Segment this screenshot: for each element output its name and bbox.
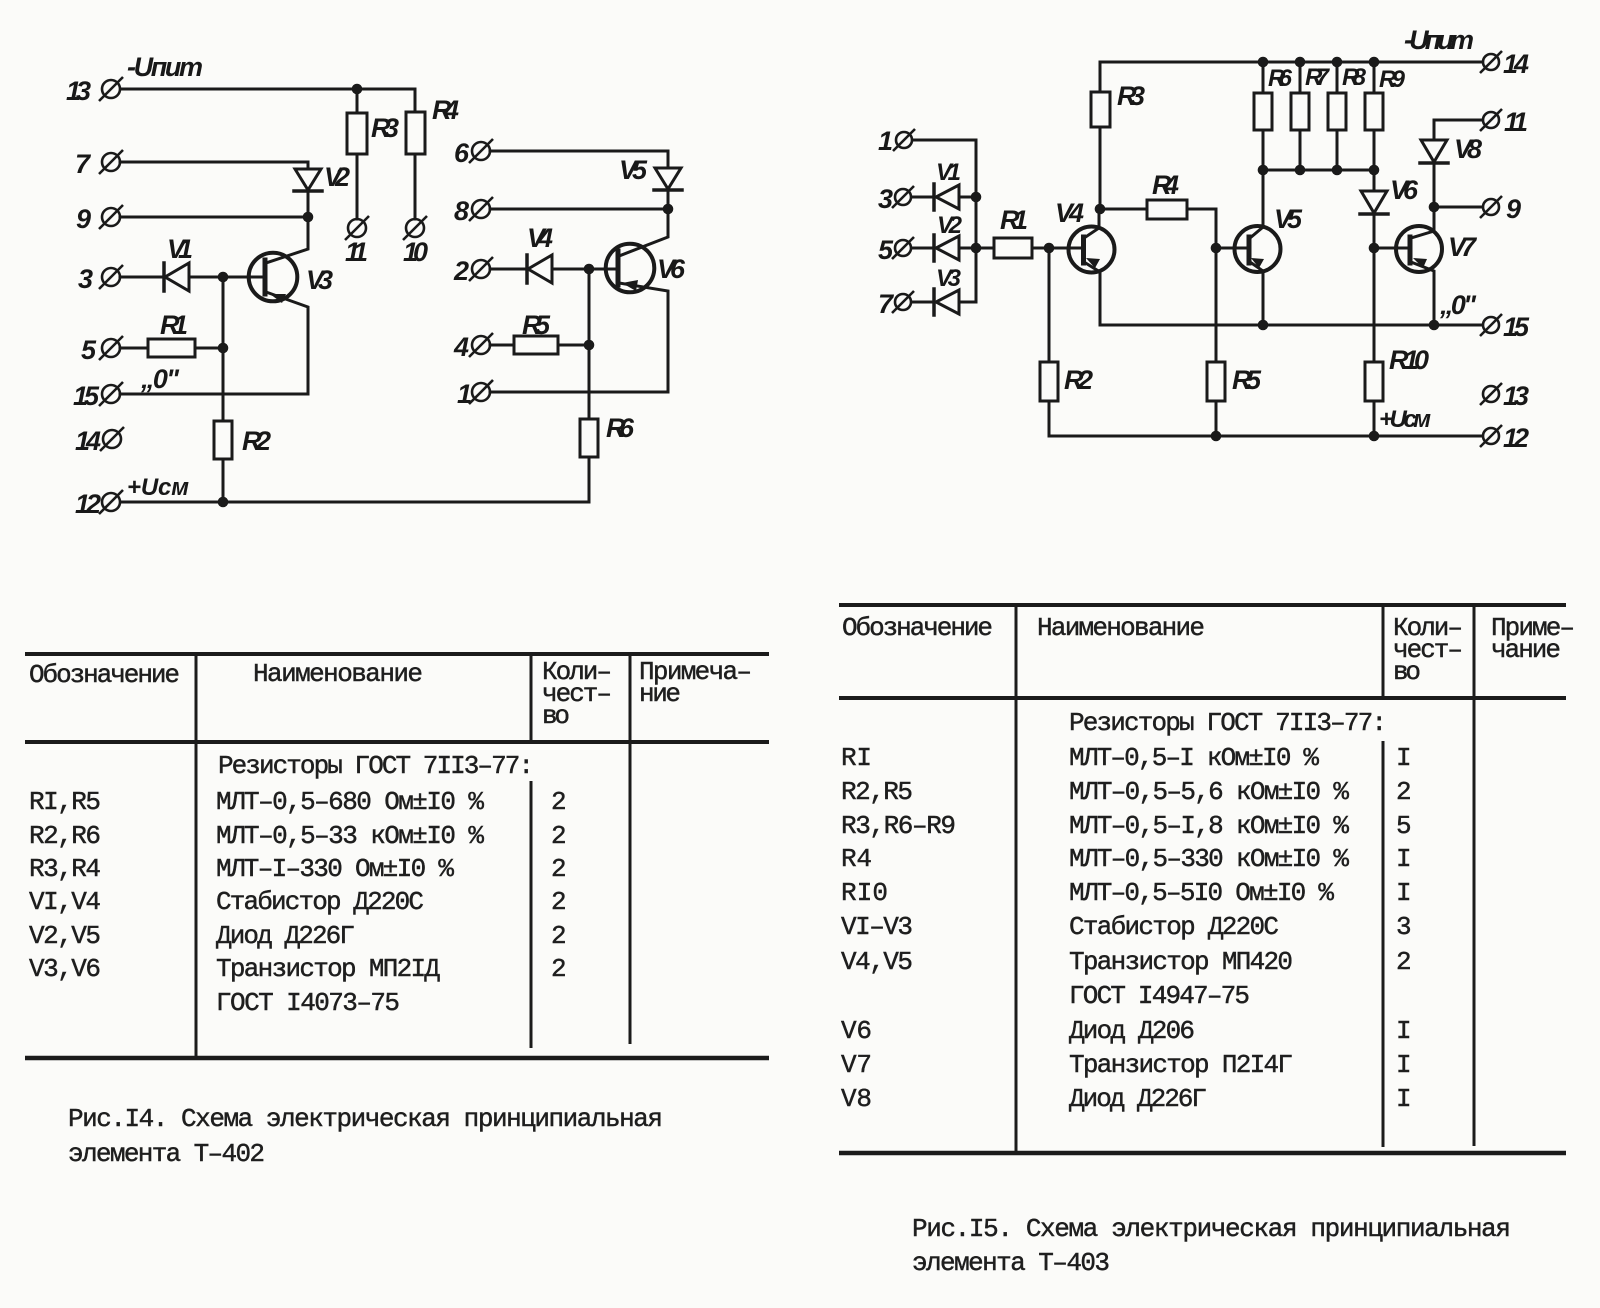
svg-text:2: 2: [551, 887, 567, 917]
junction R5 on +Uсм rail: [1211, 431, 1222, 442]
V6 emitter arrow (PNP): [622, 280, 638, 291]
wire base node down to R2: [222, 277, 225, 421]
pin 15 terminal: [1480, 314, 1502, 336]
wire R5 to base column: [558, 344, 589, 347]
svg-text:Транзистор МП420: Транзистор МП420: [1069, 947, 1293, 977]
svg-text:Стабистор Д220С: Стабистор Д220С: [216, 887, 424, 917]
pin 3 terminal: [892, 186, 914, 208]
wire R1 to V4 base: [1032, 247, 1083, 250]
junction bottom rail R8: [1332, 165, 1343, 176]
svg-text:во: во: [1393, 657, 1421, 687]
junction V4 collector/R3/R4: [1095, 204, 1106, 215]
svg-text:Наименование: Наименование: [253, 659, 423, 689]
pin 3 terminal: [99, 265, 123, 289]
wire R2 bottom to +Uсм rail: [222, 459, 225, 502]
resistor R2: [1040, 362, 1058, 401]
wire R5 column: [1215, 248, 1218, 362]
svg-text:14: 14: [75, 426, 101, 456]
pin 14 terminal: [1480, 51, 1502, 73]
wire V6 emitter down to pin 1 line: [619, 283, 668, 392]
junction top rail R8: [1332, 57, 1343, 68]
resistor R1: [148, 339, 195, 357]
wire R4 bottom to pin 10: [414, 154, 417, 219]
wire R1 to base column: [195, 347, 223, 350]
resistor R4: [406, 112, 425, 154]
wire base node to V5: [1216, 247, 1248, 250]
svg-text:14: 14: [1503, 49, 1529, 79]
diode V8: [1421, 140, 1447, 162]
svg-text:I: I: [1396, 844, 1412, 874]
svg-text:2: 2: [1396, 777, 1412, 807]
wire pin 5 to R1: [120, 347, 148, 350]
junction top rail R9: [1369, 57, 1380, 68]
junction R10 on +Uсм rail: [1369, 431, 1380, 442]
transistor V5: [1235, 226, 1281, 272]
svg-text:Стабистор Д220С: Стабистор Д220С: [1069, 912, 1279, 942]
pin 13 terminal: [99, 77, 123, 101]
svg-text:R1: R1: [160, 310, 188, 340]
svg-text:МЛТ–0,5–33 кОм±I0 %: МЛТ–0,5–33 кОм±I0 %: [216, 821, 484, 851]
svg-text:МЛТ–I–330 Ом±I0 %: МЛТ–I–330 Ом±I0 %: [216, 854, 454, 884]
svg-text:Рис.I5. Схема электрическая пр: Рис.I5. Схема электрическая принципиальн…: [912, 1214, 1511, 1244]
wire R4 top stub: [414, 89, 417, 112]
svg-text:2: 2: [551, 787, 567, 817]
svg-text:8: 8: [454, 196, 469, 226]
svg-text:VI,V4: VI,V4: [29, 887, 101, 917]
wire V2 to input column: [959, 247, 976, 250]
svg-text:V5: V5: [1274, 204, 1303, 234]
svg-text:V8: V8: [841, 1084, 872, 1114]
wire pin 8 to node: [490, 208, 668, 211]
wire pin 5 to V2: [912, 247, 933, 250]
wire R3 top stub: [356, 89, 359, 113]
resistor R4: [1147, 200, 1187, 219]
wire R7 bottom stub: [1299, 130, 1302, 170]
svg-text:1: 1: [878, 126, 893, 156]
resistor R5: [1207, 362, 1225, 401]
svg-text:15: 15: [73, 381, 100, 411]
svg-text:6: 6: [454, 138, 470, 168]
junction V8/V7 collector/pin 9: [1429, 202, 1440, 213]
svg-text:I: I: [1396, 1050, 1412, 1080]
wire pin 1 input: [913, 140, 976, 302]
svg-text:во: во: [542, 701, 570, 731]
wire pin 4 to R5: [490, 344, 514, 347]
wire R7 top stub: [1299, 62, 1302, 93]
wire base node to V7: [1374, 247, 1410, 250]
svg-text:R4: R4: [432, 95, 459, 125]
wire V5 cathode to node 8: [667, 190, 670, 209]
svg-text:R2: R2: [242, 426, 271, 456]
svg-text:13: 13: [66, 76, 91, 106]
svg-text:Диод Д206: Диод Д206: [1069, 1016, 1195, 1046]
junction V7 emitter on "0" rail: [1429, 320, 1440, 331]
svg-text:R2,R6: R2,R6: [29, 821, 101, 851]
junction top rail R6: [1258, 57, 1269, 68]
resistor R8: [1328, 93, 1346, 130]
pin 9 terminal: [1480, 196, 1502, 218]
svg-text:12: 12: [75, 489, 101, 519]
wire V3 collector: [266, 217, 308, 263]
wire base node down to R6: [588, 269, 591, 419]
wire V4 emitter to "0" rail: [1084, 262, 1100, 325]
diode V1 (stabistor): [932, 184, 936, 210]
resistor R3: [1091, 92, 1110, 127]
wire R10 column: [1373, 248, 1376, 362]
wire V4 to base node: [552, 268, 618, 271]
resistor R3: [347, 113, 367, 154]
svg-text:Рис.I4. Схема электрическая пр: Рис.I4. Схема электрическая принципиальн…: [68, 1104, 663, 1134]
junction R2 on +Uсм: [218, 497, 229, 508]
wire V4 collector: [1084, 209, 1099, 238]
svg-text:15: 15: [1503, 312, 1530, 342]
svg-text:R3: R3: [371, 113, 399, 143]
junction input node V2/R1: [971, 243, 982, 254]
svg-text:R5: R5: [1232, 365, 1262, 395]
pin 12 terminal: [99, 490, 123, 514]
wire pin 6 to V5 anode: [490, 151, 668, 168]
wire R5 bottom: [1215, 401, 1218, 436]
svg-text:R4: R4: [841, 844, 872, 874]
svg-text:V3: V3: [936, 265, 962, 292]
svg-text:2: 2: [1396, 947, 1412, 977]
svg-text:VI–V3: VI–V3: [841, 912, 913, 942]
junction bottom rail R7: [1295, 165, 1306, 176]
svg-text:2: 2: [551, 821, 567, 851]
svg-text:Резисторы ГОСТ 7II3–77:: Резисторы ГОСТ 7II3–77:: [1069, 708, 1387, 738]
svg-text:Обозначение: Обозначение: [29, 660, 180, 690]
svg-text:5: 5: [878, 235, 894, 265]
svg-text:12: 12: [1503, 423, 1529, 453]
junction input node V1: [971, 192, 982, 203]
pin 15 terminal: [99, 382, 123, 406]
svg-text:МЛТ–0,5–I кОм±I0 %: МЛТ–0,5–I кОм±I0 %: [1069, 743, 1319, 773]
wire V8 cathode to node 9: [1433, 163, 1436, 207]
junction V4 / base: [584, 264, 595, 275]
wire R6-R9 bottom rail: [1263, 169, 1374, 172]
wire pin 2 to V4: [490, 268, 524, 271]
svg-text:+Uсм: +Uсм: [1379, 406, 1431, 433]
wire V3 emitter down to "0" line: [266, 292, 308, 394]
net "0" rail to pin 15: [1100, 324, 1482, 327]
net -Uпит top rail: [1100, 61, 1482, 64]
svg-text:I: I: [1396, 878, 1412, 908]
svg-text:3: 3: [1396, 912, 1412, 942]
svg-text:R9: R9: [1379, 66, 1406, 93]
pin 8 terminal: [469, 197, 493, 221]
wire V5 collector: [1250, 170, 1263, 238]
svg-text:RI: RI: [841, 743, 872, 773]
diode V2: [295, 169, 321, 190]
svg-text:V1: V1: [167, 234, 193, 264]
svg-text:9: 9: [1506, 194, 1521, 224]
svg-text:5: 5: [1396, 811, 1412, 841]
svg-text:10: 10: [403, 237, 428, 267]
junction bottom rail R6: [1258, 165, 1269, 176]
svg-text:Резисторы ГОСТ 7II3–77:: Резисторы ГОСТ 7II3–77:: [218, 751, 534, 781]
svg-text:R6: R6: [606, 413, 635, 443]
junction R1/V4 base/R2: [1044, 243, 1055, 254]
wire V1 to base node: [189, 276, 265, 279]
wire node to pin 9: [1434, 206, 1482, 209]
svg-text:3: 3: [878, 184, 893, 214]
svg-text:V7: V7: [1448, 232, 1478, 262]
wire V1 to input column: [959, 196, 976, 199]
pin 9 terminal: [99, 205, 123, 229]
pin 5 terminal: [99, 336, 123, 360]
svg-text:Диод Д226Г: Диод Д226Г: [1069, 1084, 1207, 1114]
wire rail to V6: [1373, 170, 1376, 191]
svg-text:V6: V6: [657, 254, 686, 284]
svg-text:V8: V8: [1454, 134, 1482, 164]
junction on -Uпит at R3: [352, 84, 363, 95]
pin 7 terminal: [892, 291, 914, 313]
svg-text:+Uсм: +Uсм: [127, 474, 189, 501]
junction node 9 / V2 / V3 collector: [303, 212, 314, 223]
pin 2 terminal: [469, 257, 493, 281]
pin 7 terminal: [99, 150, 123, 174]
svg-text:чание: чание: [1491, 635, 1561, 665]
svg-text:V7: V7: [841, 1050, 872, 1080]
junction V6/V7 base/R10: [1369, 243, 1380, 254]
wire R2 bottom: [1048, 401, 1051, 436]
wire pin 3 to V1: [120, 276, 161, 279]
svg-text:V4,V5: V4,V5: [841, 947, 913, 977]
svg-text:V3,V6: V3,V6: [29, 954, 101, 984]
svg-text:элемента Т–402: элемента Т–402: [68, 1139, 265, 1169]
pin 1 terminal: [893, 129, 915, 151]
svg-text:R3: R3: [1117, 81, 1145, 111]
wire pin 11 to V8: [1434, 120, 1482, 140]
svg-text:R10: R10: [1389, 345, 1429, 375]
svg-text:„0": „0": [1439, 290, 1477, 320]
svg-text:V6: V6: [841, 1016, 872, 1046]
svg-text:I: I: [1396, 1016, 1412, 1046]
junction node 8 / V5 / V6 collector: [663, 204, 674, 215]
wire pin 15 ("0" net): [120, 393, 308, 396]
wire R8 top stub: [1336, 62, 1339, 93]
svg-text:R2: R2: [1064, 365, 1093, 395]
resistor R5: [514, 336, 558, 354]
svg-text:Наименование: Наименование: [1037, 613, 1205, 643]
pin 11 terminal: [345, 216, 369, 240]
resistor R2: [214, 421, 232, 459]
net +Uсм rail: [121, 501, 589, 504]
svg-text:I: I: [1396, 1084, 1412, 1114]
wire R9 bottom stub: [1373, 130, 1376, 170]
svg-text:R3,R6–R9: R3,R6–R9: [841, 811, 956, 841]
wire R4 to V5 base node: [1187, 209, 1216, 248]
svg-text:RI0: RI0: [841, 878, 888, 908]
wire V2 cathode to node 9: [307, 191, 310, 217]
svg-text:элемента Т–403: элемента Т–403: [912, 1248, 1110, 1278]
svg-text:Транзистор МП2IД: Транзистор МП2IД: [216, 954, 440, 984]
svg-text:9: 9: [76, 204, 91, 234]
diode V2 (stabistor): [932, 235, 936, 261]
svg-text:R7: R7: [1305, 64, 1331, 91]
wire R2 column: [1048, 248, 1051, 362]
svg-text:V3: V3: [306, 265, 333, 295]
pin 6 terminal: [469, 139, 493, 163]
svg-text:4: 4: [453, 332, 469, 362]
pin 10 terminal: [403, 216, 427, 240]
wire R6 bottom stub: [1262, 130, 1265, 170]
diode V3 (stabistor): [932, 289, 936, 315]
pin 1 terminal: [469, 380, 493, 404]
svg-text:13: 13: [1503, 381, 1529, 411]
svg-text:R4: R4: [1152, 170, 1179, 200]
wire R3 bottom to collector node: [1099, 127, 1102, 208]
svg-text:МЛТ–0,5–680 Ом±I0 %: МЛТ–0,5–680 Ом±I0 %: [216, 787, 484, 817]
junction R4/V5 base/R5: [1211, 243, 1222, 254]
wire pin 7 to V3: [912, 301, 933, 304]
svg-text:2: 2: [453, 256, 469, 286]
wire pin 3 to V1: [912, 196, 933, 199]
svg-text:„0": „0": [140, 364, 180, 394]
wire V7 collector to node 9: [1411, 207, 1434, 238]
net -Uпит wire (pin 13 to R3/R4 tops): [121, 88, 415, 91]
pin 12 terminal: [1480, 425, 1502, 447]
V5 emitter arrow (PNP): [1251, 258, 1264, 268]
resistor R10: [1365, 362, 1383, 401]
svg-text:V2: V2: [937, 212, 963, 239]
wire R6 top stub: [1262, 62, 1265, 93]
svg-text:ГОСТ I4947–75: ГОСТ I4947–75: [1069, 981, 1250, 1011]
wire R3 top stub: [1099, 62, 1102, 92]
svg-text:RI,R5: RI,R5: [29, 787, 101, 817]
diode V1 (stabistor): [162, 263, 166, 291]
wire V7 emitter to "0" rail: [1411, 262, 1434, 325]
pin 14 terminal: [100, 427, 124, 451]
svg-text:-Uпит: -Uпит: [127, 52, 203, 82]
wire collector node to R4: [1100, 208, 1147, 211]
wire R8 bottom stub: [1336, 130, 1339, 170]
svg-text:I: I: [1396, 743, 1412, 773]
wire pin 9 to node: [120, 216, 308, 219]
resistor R6: [1254, 93, 1272, 130]
svg-text:1: 1: [457, 379, 472, 409]
svg-text:2: 2: [551, 954, 567, 984]
svg-text:-Uпит: -Uпит: [1404, 25, 1474, 55]
transistor V3: [249, 253, 298, 302]
diode V6: [1361, 191, 1387, 213]
diode V4 (stabistor): [525, 255, 529, 283]
V7 emitter arrow (PNP): [1413, 258, 1427, 268]
svg-text:R2,R5: R2,R5: [841, 777, 913, 807]
wire input node to R1: [976, 247, 994, 250]
wire R10 bottom: [1373, 401, 1376, 436]
svg-text:Обозначение: Обозначение: [842, 613, 993, 643]
transistor V6: [606, 244, 655, 293]
caption Рис.14: [68, 1104, 663, 1169]
wire V3 to input column: [959, 301, 976, 304]
svg-text:2: 2: [551, 921, 567, 951]
wire V6 to V7 base node: [1373, 214, 1376, 248]
wire R9 top stub: [1373, 62, 1376, 93]
junction bottom rail R9/V6: [1369, 165, 1380, 176]
svg-text:МЛТ–0,5–I,8 кОм±I0 %: МЛТ–0,5–I,8 кОм±I0 %: [1069, 811, 1349, 841]
V3 emitter arrow (PNP): [270, 294, 286, 303]
svg-text:R6: R6: [1268, 65, 1293, 92]
svg-text:V2,V5: V2,V5: [29, 921, 101, 951]
junction R5 node: [584, 340, 595, 351]
diode V5: [655, 168, 681, 189]
junction top rail R7: [1295, 57, 1306, 68]
svg-text:МЛТ–0,5–5I0 Ом±I0 %: МЛТ–0,5–5I0 Ом±I0 %: [1069, 878, 1334, 908]
pin 13 terminal: [1480, 383, 1502, 405]
svg-text:МЛТ–0,5–330 кОм±I0 %: МЛТ–0,5–330 кОм±I0 %: [1069, 844, 1349, 874]
pin 4 terminal: [469, 333, 493, 357]
svg-text:Диод Д226Г: Диод Д226Г: [216, 921, 355, 951]
svg-text:R8: R8: [1342, 64, 1367, 91]
transistor V7: [1396, 226, 1442, 272]
svg-text:V2: V2: [324, 162, 350, 192]
svg-text:V1: V1: [936, 159, 961, 186]
caption Рис.15: [912, 1214, 1511, 1278]
svg-text:V4: V4: [527, 223, 553, 253]
svg-text:3: 3: [78, 264, 93, 294]
pin 11 terminal: [1480, 109, 1502, 131]
resistor R1: [994, 238, 1032, 258]
net +Uсм rail to pin 12: [1049, 435, 1482, 438]
junction V1 / R1 / base: [218, 272, 229, 283]
junction V5 emitter on "0" rail: [1258, 320, 1269, 331]
svg-text:7: 7: [878, 289, 895, 319]
wire pin 7 to V2 anode: [120, 162, 308, 169]
svg-text:R5: R5: [522, 310, 551, 340]
junction R1 node: [218, 343, 229, 354]
svg-text:R1: R1: [1000, 205, 1028, 235]
svg-text:МЛТ–0,5–5,6 кОм±I0 %: МЛТ–0,5–5,6 кОм±I0 %: [1069, 777, 1349, 807]
wire R3 bottom to pin 11: [356, 154, 359, 219]
svg-text:V6: V6: [1390, 175, 1419, 205]
wire R6 bottom to +Uсм rail: [588, 457, 591, 502]
wire pin 1 line: [490, 391, 668, 394]
svg-text:5: 5: [81, 335, 97, 365]
svg-text:V4: V4: [1055, 198, 1084, 228]
resistor R6: [580, 419, 598, 457]
svg-text:ние: ние: [639, 679, 681, 709]
resistor R7: [1291, 93, 1309, 130]
wire V6 collector: [619, 209, 668, 256]
svg-text:7: 7: [75, 149, 92, 179]
V4 emitter arrow (PNP): [1086, 258, 1100, 268]
svg-text:Транзистор П2I4Г: Транзистор П2I4Г: [1069, 1050, 1293, 1080]
svg-text:R3,R4: R3,R4: [29, 854, 101, 884]
pin 5 terminal: [892, 237, 914, 259]
svg-text:V5: V5: [619, 155, 648, 185]
svg-text:11: 11: [345, 237, 368, 267]
transistor V4: [1069, 227, 1115, 273]
resistor R9: [1365, 93, 1383, 130]
svg-text:11: 11: [1504, 107, 1528, 137]
svg-text:ГОСТ I4073–75: ГОСТ I4073–75: [216, 988, 400, 1018]
wire V5 emitter: [1250, 262, 1263, 325]
svg-text:2: 2: [551, 854, 567, 884]
